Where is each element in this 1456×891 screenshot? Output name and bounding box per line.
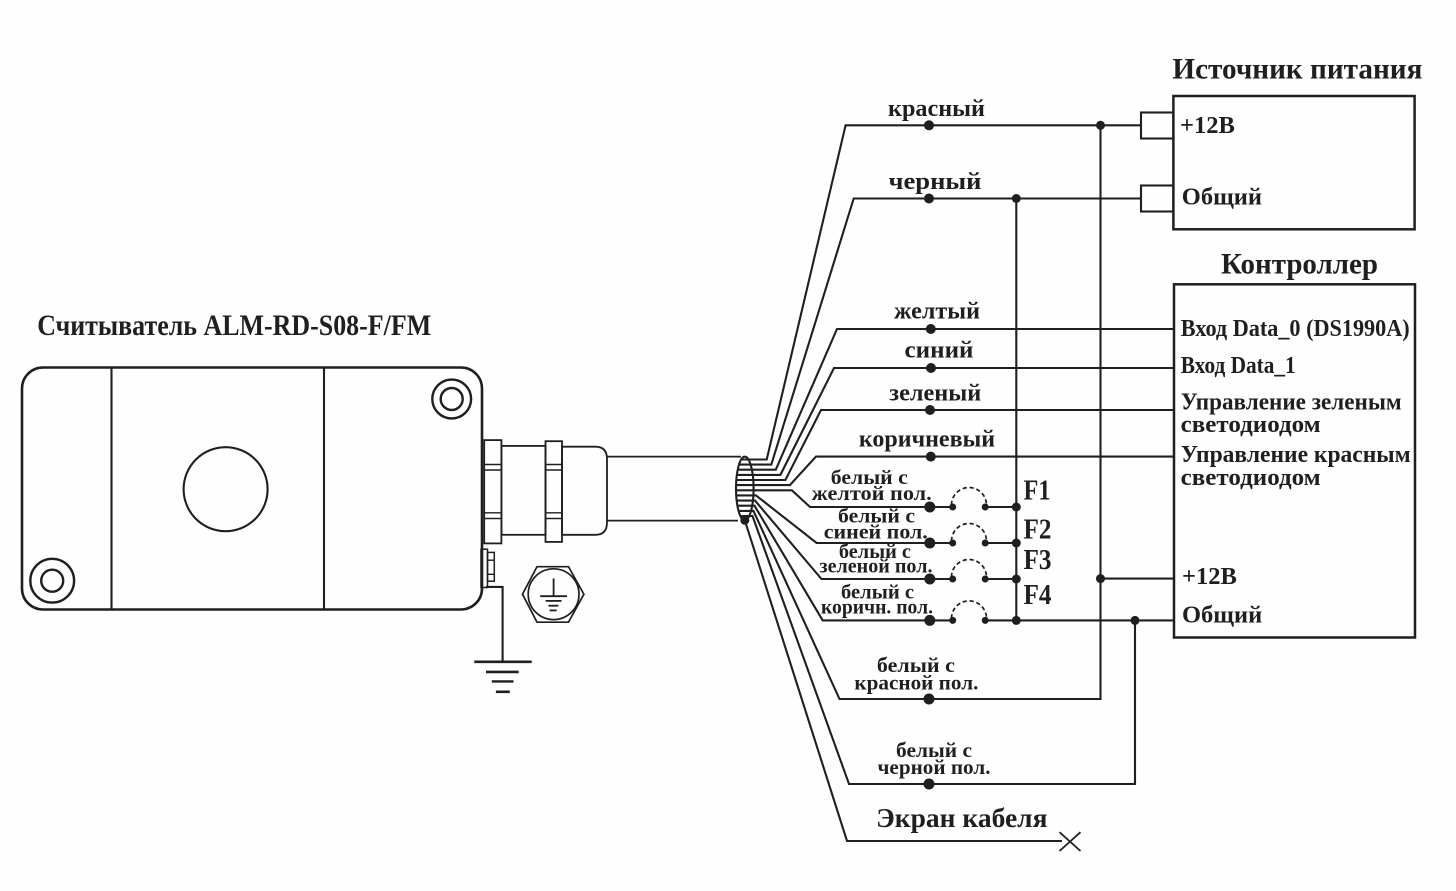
ground symbol bbox=[474, 662, 531, 692]
jumper F4 bbox=[949, 601, 989, 624]
jumper F2 bbox=[949, 524, 989, 547]
svg-text:коричн. пол.: коричн. пол. bbox=[821, 597, 933, 618]
svg-text:Считыватель ALM-RD-S08-F/FM: Считыватель ALM-RD-S08-F/FM bbox=[37, 309, 431, 342]
ground wire from lug bbox=[486, 587, 503, 662]
jumper F3 bbox=[949, 560, 989, 583]
wire +12V terminal bbox=[1101, 578, 1175, 580]
wire white-green F3 bbox=[738, 501, 1017, 579]
wire white-black with common bus bbox=[741, 516, 1135, 784]
wire white-red with +12V bus bbox=[739, 125, 1100, 699]
svg-text:зеленый: зеленый bbox=[889, 381, 981, 407]
wire green bbox=[737, 410, 1174, 480]
cable gland body bbox=[501, 446, 545, 535]
wire white-brown F4 bbox=[738, 506, 1174, 621]
power supply box bbox=[1173, 96, 1414, 229]
cable end ellipse bbox=[736, 457, 754, 521]
wire red bbox=[742, 125, 1141, 459]
svg-text:+12В: +12В bbox=[1180, 112, 1235, 139]
svg-text:коричневый: коричневый bbox=[859, 427, 995, 453]
earth bolt symbol bbox=[523, 567, 584, 623]
wire marker dots bbox=[924, 120, 937, 789]
svg-text:F4: F4 bbox=[1024, 580, 1052, 611]
cable gland cap bbox=[562, 447, 607, 535]
reader body U1 bbox=[22, 368, 482, 610]
svg-text:зеленой пол.: зеленой пол. bbox=[820, 557, 933, 578]
wire white-yellow F1 bbox=[737, 490, 1017, 507]
jumper F1 bbox=[949, 488, 989, 511]
cable gland flange ring bbox=[484, 440, 501, 543]
svg-text:синей пол.: синей пол. bbox=[824, 522, 928, 543]
svg-text:красный: красный bbox=[888, 96, 985, 122]
svg-text:F2: F2 bbox=[1024, 515, 1052, 546]
svg-text:желтый: желтый bbox=[894, 299, 980, 325]
svg-text:Общий: Общий bbox=[1182, 602, 1262, 629]
svg-text:светодиодом: светодиодом bbox=[1181, 464, 1321, 491]
svg-text:черной пол.: черной пол. bbox=[878, 755, 991, 779]
shield termination cross bbox=[1060, 832, 1081, 851]
svg-text:F3: F3 bbox=[1024, 545, 1052, 576]
svg-text:черный: черный bbox=[889, 169, 982, 195]
screw bottom-left bbox=[30, 559, 74, 603]
wire blue bbox=[738, 368, 1174, 475]
shield node dot bbox=[740, 516, 749, 525]
reader divider line right bbox=[323, 368, 325, 610]
power terminal +12V tab bbox=[1141, 113, 1173, 139]
svg-text:Вход Data_0 (DS1990A): Вход Data_0 (DS1990A) bbox=[1181, 315, 1410, 342]
controller box bbox=[1174, 284, 1415, 637]
svg-text:Вход Data_1: Вход Data_1 bbox=[1181, 352, 1296, 379]
cable sheath bottom line bbox=[607, 520, 738, 522]
svg-text:Источник питания: Источник питания bbox=[1172, 52, 1422, 85]
power terminal common tab bbox=[1141, 186, 1173, 212]
svg-text:Контроллер: Контроллер bbox=[1221, 248, 1378, 281]
svg-text:Экран кабеля: Экран кабеля bbox=[876, 802, 1047, 833]
ground lug on reader bbox=[481, 549, 494, 587]
svg-text:синий: синий bbox=[905, 338, 974, 364]
svg-text:F1: F1 bbox=[1024, 476, 1051, 507]
svg-text:светодиодом: светодиодом bbox=[1181, 411, 1321, 438]
reader center circle bbox=[184, 447, 268, 531]
common bus vertical bbox=[1015, 199, 1017, 621]
svg-text:+12В: +12В bbox=[1182, 563, 1237, 590]
cable gland nut bbox=[546, 441, 563, 542]
wire white-blue F2 bbox=[737, 495, 1016, 543]
svg-text:красной пол.: красной пол. bbox=[854, 670, 978, 694]
cable sheath top line bbox=[607, 456, 741, 458]
reader divider line left bbox=[110, 368, 112, 610]
svg-text:желтой пол.: желтой пол. bbox=[812, 484, 932, 505]
junction dots bbox=[1012, 121, 1140, 625]
wire brown bbox=[737, 457, 1174, 486]
svg-text:Общий: Общий bbox=[1182, 183, 1262, 210]
wire cable shield bbox=[745, 520, 1062, 841]
screw top-right bbox=[432, 380, 471, 419]
wire yellow bbox=[739, 329, 1175, 470]
wire black bbox=[740, 199, 1141, 465]
